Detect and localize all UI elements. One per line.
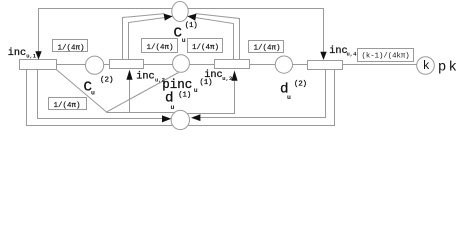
svg-text:inc: inc bbox=[136, 71, 154, 83]
svg-text:pk: pk bbox=[438, 59, 459, 75]
svg-text:(2): (2) bbox=[100, 77, 114, 85]
svg-text:u: u bbox=[287, 94, 291, 101]
svg-text:u,4: u,4 bbox=[347, 51, 358, 58]
svg-text:C: C bbox=[174, 26, 183, 42]
svg-text:(2): (2) bbox=[294, 81, 307, 89]
svg-text:inc: inc bbox=[8, 47, 26, 59]
svg-text:1/(4π): 1/(4π) bbox=[54, 102, 81, 110]
svg-text:(k-1)/(4kπ): (k-1)/(4kπ) bbox=[362, 53, 410, 61]
svg-text:k: k bbox=[423, 59, 430, 73]
svg-text:u,3: u,3 bbox=[222, 75, 233, 82]
svg-text:1/(4π): 1/(4π) bbox=[58, 44, 85, 52]
svg-text:1/(4π): 1/(4π) bbox=[254, 45, 281, 53]
svg-text:u: u bbox=[194, 87, 198, 94]
svg-text:pinc: pinc bbox=[162, 78, 192, 92]
svg-text:u,1: u,1 bbox=[26, 53, 37, 60]
svg-text:(1): (1) bbox=[185, 22, 198, 30]
svg-text:inc: inc bbox=[329, 45, 347, 57]
svg-text:1/(4π): 1/(4π) bbox=[147, 44, 174, 52]
svg-text:(1): (1) bbox=[200, 79, 213, 87]
svg-text:u: u bbox=[91, 90, 95, 97]
svg-text:1/(4π): 1/(4π) bbox=[192, 44, 219, 52]
svg-text:u: u bbox=[171, 104, 175, 111]
svg-text:u: u bbox=[182, 37, 186, 44]
svg-text:(1): (1) bbox=[178, 91, 191, 99]
